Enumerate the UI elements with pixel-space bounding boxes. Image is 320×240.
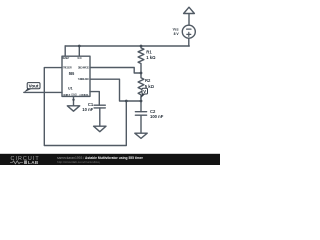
svg-text:8 V: 8 V xyxy=(174,32,180,36)
svg-text:100 nF: 100 nF xyxy=(150,114,164,119)
svg-text:TRIGGER: TRIGGER xyxy=(63,66,73,70)
svg-text:R2: R2 xyxy=(145,78,151,83)
svg-text:555: 555 xyxy=(69,71,75,76)
svg-text:http://circuitlab.com/c/unkn4t: http://circuitlab.com/c/unkn4tkq xyxy=(57,160,100,164)
svg-text:THRESHOLD: THRESHOLD xyxy=(78,77,90,81)
svg-text:RESET: RESET xyxy=(62,56,70,60)
svg-text:CONTROL: CONTROL xyxy=(79,93,89,97)
svg-text:V: V xyxy=(143,89,146,94)
svg-text:1 kΩ: 1 kΩ xyxy=(146,55,156,60)
svg-text:LAB: LAB xyxy=(28,160,39,165)
svg-text:U1: U1 xyxy=(68,87,73,91)
svg-text:GND: GND xyxy=(71,92,78,96)
svg-text:OUTPUT: OUTPUT xyxy=(63,93,71,97)
svg-text:R1: R1 xyxy=(146,49,152,54)
svg-text:VCC: VCC xyxy=(77,56,83,60)
svg-text:DISCHARGE: DISCHARGE xyxy=(78,66,89,70)
svg-text:Vout: Vout xyxy=(29,83,39,88)
svg-text:10 nF: 10 nF xyxy=(82,107,93,112)
